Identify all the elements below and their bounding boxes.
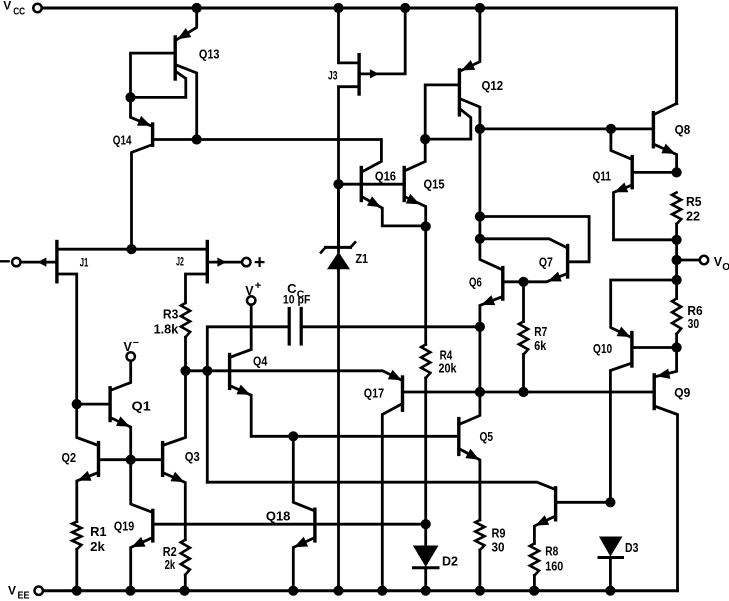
node VEE rail junction x=76.8 bbox=[72, 586, 82, 596]
svg-text:Q1: Q1 bbox=[132, 399, 151, 414]
node VEE rail junction x=425.7 bbox=[421, 586, 431, 596]
wire J2 source to tail node bbox=[132, 248, 208, 251]
svg-text:Q4: Q4 bbox=[253, 354, 268, 369]
wire Q13 diode-collector hook bbox=[131, 72, 186, 98]
svg-text:1.8k: 1.8k bbox=[154, 322, 179, 337]
wire J3 gate arrow bbox=[370, 69, 379, 78]
node VEE rail junction x=479.9 bbox=[475, 586, 485, 596]
transistor Q12 bbox=[458, 70, 461, 115]
wire Q19 emitter arrow bbox=[132, 537, 146, 547]
capacitor CC 10pF bbox=[288, 309, 291, 345]
svg-text:R3: R3 bbox=[163, 306, 178, 321]
wire Q15 emitter arrow bbox=[406, 194, 420, 204]
transistor Q15 bbox=[403, 168, 406, 201]
svg-text:R8: R8 bbox=[545, 544, 558, 559]
svg-text:EE: EE bbox=[18, 590, 30, 601]
wire Q11 emitter down and right bbox=[614, 185, 677, 240]
svg-text:Q7: Q7 bbox=[539, 255, 553, 270]
wire CC right lead bbox=[301, 325, 480, 328]
wire Q14 emitter from Q13 node bbox=[131, 97, 152, 126]
wire VCC top rail with corner down to Q8 collector bbox=[42, 8, 677, 104]
svg-text:J1: J1 bbox=[80, 256, 89, 270]
wire Q5 emitter arrow bbox=[465, 449, 479, 460]
wire Q12 base loop bbox=[425, 85, 459, 139]
wire Q13 second collector down bbox=[176, 65, 197, 140]
wire Q1 collector to V- bbox=[110, 361, 131, 391]
svg-text:2k: 2k bbox=[90, 539, 105, 554]
wire Q9 emitter from R6 node bbox=[656, 348, 677, 377]
svg-text:V: V bbox=[3, 0, 11, 13]
node top rail junction above Q12 bbox=[475, 3, 485, 13]
wire J1 drain down to Q1 base bbox=[57, 274, 77, 404]
wire Q4 emitter arrow bbox=[236, 385, 250, 395]
transistor Q6 bbox=[501, 268, 504, 300]
node VEE rail junction x=293.3 bbox=[288, 586, 298, 596]
node compensation line junction bbox=[475, 322, 485, 332]
wire J1 gate lead bbox=[21, 261, 57, 264]
node Q6 emitter to Q17 base line bbox=[475, 387, 485, 397]
terminal V- bbox=[127, 352, 135, 360]
wire Q2 emitter arrow bbox=[78, 471, 92, 481]
wire Q12 diode-collector hook bbox=[425, 109, 471, 140]
wire Q12 second collector down bbox=[459, 99, 480, 239]
transistor Q1 bbox=[108, 388, 111, 421]
resistor R8 160 bbox=[530, 544, 539, 576]
node VEE rail junction x=382.3 bbox=[377, 586, 387, 596]
terminal VCC bbox=[33, 4, 41, 12]
wire Q2 collector up bbox=[77, 404, 99, 445]
node R5 bottom / Q11 emitter bbox=[672, 235, 682, 245]
wire driver emitter to R8 bbox=[534, 516, 555, 544]
wire Q17 collector down to VEE bbox=[382, 404, 402, 591]
svg-text:Q17: Q17 bbox=[364, 386, 384, 401]
svg-text:O: O bbox=[722, 262, 729, 273]
wire Q19 collector up bbox=[131, 460, 153, 513]
transistor Q16 bbox=[360, 168, 363, 201]
svg-text:Q8: Q8 bbox=[675, 122, 691, 137]
wire R6 bottom lead bbox=[675, 334, 678, 348]
wire R7 bottom lead bbox=[522, 355, 525, 393]
svg-text:D2: D2 bbox=[442, 553, 458, 568]
wire Q12 emitter from VCC rail bbox=[461, 8, 480, 71]
resistor R9 30 bbox=[475, 520, 484, 550]
wire R4 top lead bbox=[424, 226, 427, 344]
wire Q2 emitter down bbox=[77, 473, 99, 522]
wire Q17 base line to Q9 bbox=[403, 391, 655, 394]
svg-text:J2: J2 bbox=[176, 255, 184, 269]
wire Q7 base loop bbox=[480, 217, 589, 262]
transistor J1 bbox=[55, 242, 58, 282]
transistor Q7 bbox=[566, 246, 569, 278]
wire J1 source to tail node bbox=[57, 248, 132, 251]
node Q13 base-collector tie bbox=[125, 92, 135, 102]
wire R8 bottom lead bbox=[533, 576, 536, 591]
wire Q1 emitter down bbox=[110, 418, 131, 460]
wire Z1 anode down to VEE rail bbox=[337, 269, 340, 590]
wire Q4 emitter down to Q5 base line bbox=[230, 386, 459, 437]
resistor R3 1.8k bbox=[181, 303, 190, 337]
node VEE rail junction x=130.5 bbox=[125, 586, 135, 596]
svg-text:R7: R7 bbox=[534, 324, 547, 339]
node Q15 Q16 emitters to R4 bbox=[421, 221, 431, 231]
wire Q3 collector up to R3 node bbox=[163, 371, 186, 446]
svg-text:Q3: Q3 bbox=[185, 449, 200, 464]
node Q8 emitter R5 top bbox=[672, 167, 682, 177]
svg-text:V: V bbox=[245, 284, 254, 298]
node Q8 base / Q11 collector bbox=[606, 124, 616, 134]
node CC branch at main line bbox=[202, 366, 212, 376]
wire Q5 collector up bbox=[459, 392, 480, 425]
label plus sign bbox=[256, 261, 264, 263]
wire J3 source down center column bbox=[339, 87, 360, 248]
wire Q13 emitter from VCC rail bbox=[177, 8, 197, 40]
node R6 bottom / Q10 base / Q9 emitter bbox=[672, 342, 682, 352]
wire Q16 emitter bbox=[361, 197, 425, 226]
node J3 source / Q15 Q16 base tap bbox=[333, 179, 343, 189]
wire J2 gate arrow bbox=[217, 258, 226, 267]
resistor R1 2k bbox=[72, 522, 81, 550]
transistor Q9 bbox=[653, 375, 656, 409]
diode D2 bbox=[424, 524, 427, 545]
wire Q3 emitter arrow bbox=[171, 472, 185, 482]
terminal VEE bbox=[35, 587, 43, 595]
node JFET tail junction bbox=[126, 244, 136, 254]
svg-text:Q15: Q15 bbox=[424, 177, 445, 192]
wire Q8 base line from Q12 bbox=[480, 127, 654, 130]
wire Q11 base bbox=[632, 171, 676, 174]
wire R9 bottom lead bbox=[478, 550, 481, 591]
transistor Q3 bbox=[161, 443, 164, 476]
svg-text:160: 160 bbox=[545, 559, 563, 574]
node R4 bottom / D2 anode / base line bbox=[421, 519, 431, 529]
node Q1 base junction bbox=[72, 399, 82, 409]
diode zener Z1 bbox=[337, 184, 340, 252]
wire long line to output driver bbox=[207, 482, 555, 489]
wire Q4 base line with Q17 emitter bbox=[186, 371, 402, 381]
terminal non-inverting input bbox=[242, 258, 250, 266]
wire Q10 base to R6 bottom bbox=[632, 346, 677, 349]
node R7 bottom junction bbox=[518, 387, 528, 397]
wire Q13 emitter arrow bbox=[177, 28, 191, 39]
wire driver base to D3 node bbox=[556, 501, 611, 504]
resistor R6 30 bbox=[672, 299, 681, 335]
wire CC branch down to driver line bbox=[206, 371, 209, 482]
wire Q3 emitter down to R2 bbox=[163, 473, 186, 540]
svg-text:Q12: Q12 bbox=[482, 78, 504, 93]
wire Q8 emitter to R5 bbox=[653, 144, 676, 172]
wire to Vo terminal bbox=[677, 259, 700, 262]
diode D3 bbox=[599, 537, 623, 557]
resistor R2 2k bbox=[181, 540, 190, 575]
svg-text:Q13: Q13 bbox=[199, 46, 220, 61]
node VEE rail junction x=534.2 bbox=[529, 586, 539, 596]
svg-text:V: V bbox=[8, 584, 16, 598]
resistor R4 20k bbox=[421, 345, 430, 379]
node D3 anode / driver base bbox=[605, 497, 615, 507]
wire Q6 emitter down bbox=[480, 297, 503, 393]
wire R4 bottom lead bbox=[424, 378, 427, 524]
wire Q15 Q16 common base bbox=[339, 183, 405, 186]
wire J1 gate arrow bbox=[37, 258, 46, 267]
svg-text:Z1: Z1 bbox=[356, 251, 369, 266]
wire Q15 emitter bbox=[404, 197, 426, 227]
svg-text:2k: 2k bbox=[165, 557, 176, 572]
svg-text:Q16: Q16 bbox=[375, 168, 396, 183]
wire Q7 collector bbox=[480, 239, 568, 248]
svg-text:10 pF: 10 pF bbox=[283, 292, 311, 306]
wire Q1 emitter arrow bbox=[116, 416, 130, 426]
wire Q16 emitter arrow bbox=[367, 196, 381, 207]
terminal inverting input bbox=[12, 258, 20, 266]
wire R5 bottom lead bbox=[675, 224, 678, 240]
svg-text:Q6: Q6 bbox=[469, 275, 482, 290]
svg-text:30: 30 bbox=[492, 540, 505, 555]
transistor Q18 bbox=[313, 509, 316, 541]
svg-text:+: + bbox=[255, 280, 261, 292]
wire Q9 collector down to VEE rail bbox=[654, 406, 677, 591]
wire CC left lead bbox=[207, 327, 289, 371]
wire Q14 base line to Q16 collector bbox=[153, 140, 382, 172]
svg-text:–: – bbox=[133, 336, 139, 348]
label minus sign bbox=[1, 260, 8, 262]
wire Q7 emitter arrow bbox=[548, 272, 562, 282]
node VEE rail junction x=338.5 bbox=[333, 586, 343, 596]
wire Q8 collector diagonal bbox=[653, 104, 676, 115]
wire Q11 collector up bbox=[611, 129, 632, 160]
transistor Q17 bbox=[401, 377, 404, 410]
wire driver emitter arrow bbox=[535, 515, 549, 525]
resistor R5 22 bbox=[672, 193, 681, 225]
svg-text:R1: R1 bbox=[90, 524, 107, 539]
terminal VO output bbox=[700, 256, 708, 264]
svg-text:Q18: Q18 bbox=[266, 509, 291, 524]
wire Q9 emitter arrow bbox=[657, 369, 671, 379]
node Q6 base / R7 top bbox=[518, 277, 528, 287]
wire Q7 emitter to Q6 base bbox=[503, 274, 568, 282]
wire Q5 emitter down to R9 bbox=[459, 449, 480, 521]
node R3 bottom junction bbox=[180, 366, 190, 376]
wire Q18 collector from Q5 base line bbox=[293, 436, 314, 510]
node Q12 base-collector tie bbox=[420, 134, 430, 144]
node VEE rail junction x=184.5 bbox=[179, 586, 189, 596]
wire Q18 emitter down bbox=[293, 538, 315, 591]
wire Q10 collector down to D3 bbox=[610, 363, 632, 502]
node top rail junction above J3 gate bbox=[400, 3, 410, 13]
wire R2 bottom lead bbox=[184, 575, 187, 591]
wire Q1 base bbox=[77, 403, 110, 406]
transistor output driver NPN bbox=[554, 488, 557, 520]
wire Q10 emitter arrow bbox=[617, 327, 631, 337]
wire VEE bottom rail bbox=[43, 589, 678, 592]
svg-text:22: 22 bbox=[686, 208, 700, 223]
node Q7 collector tie bbox=[475, 234, 485, 244]
wire Q17 emitter arrow bbox=[388, 370, 402, 381]
transistor J2 bbox=[206, 242, 209, 282]
svg-text:V: V bbox=[124, 340, 133, 354]
transistor Q5 bbox=[457, 419, 460, 455]
wire right column R5 to R6 bbox=[675, 240, 678, 299]
wire Q2 Q3 base line bbox=[99, 458, 163, 461]
wire Q6 emitter arrow bbox=[481, 295, 495, 305]
terminal V+ bbox=[247, 296, 255, 304]
node Q18 collector tap bbox=[288, 431, 298, 441]
wire J3 gate to VCC bbox=[359, 8, 405, 74]
svg-text:Q14: Q14 bbox=[113, 132, 132, 147]
node top rail junction above J3 drain bbox=[333, 3, 343, 13]
transistor Q4 bbox=[228, 355, 231, 389]
node VEE rail junction x=610.4 bbox=[605, 586, 615, 596]
svg-text:Q11: Q11 bbox=[593, 169, 611, 184]
node Q12 collector to Q8 base line bbox=[475, 124, 485, 134]
node top rail junction above Q13 bbox=[192, 3, 202, 13]
wire R7 top lead bbox=[522, 282, 525, 322]
wire Q4 collector to V+ bbox=[230, 305, 252, 358]
wire R3 bottom lead bbox=[184, 337, 187, 371]
svg-text:30: 30 bbox=[688, 316, 700, 331]
svg-text:Q10: Q10 bbox=[593, 341, 612, 356]
wire Q12 emitter arrow bbox=[461, 60, 475, 70]
node Q2 Q3 base junction bbox=[126, 455, 136, 465]
wire Q18 emitter arrow bbox=[294, 537, 308, 547]
transistor Q19 bbox=[151, 510, 154, 541]
svg-text:Q2: Q2 bbox=[62, 450, 77, 465]
svg-text:J3: J3 bbox=[328, 68, 338, 82]
svg-text:R5: R5 bbox=[686, 194, 702, 209]
resistor R7 6k bbox=[519, 322, 528, 355]
transistor Q14 bbox=[151, 124, 154, 145]
svg-text:6k: 6k bbox=[534, 338, 547, 353]
wire J3 drain to VCC bbox=[339, 8, 360, 63]
wire Q14 emitter arrow bbox=[137, 116, 151, 126]
wire Q10 emitter from output column bbox=[611, 280, 677, 337]
svg-text:R9: R9 bbox=[492, 526, 506, 541]
node Q10 emitter tap bbox=[672, 275, 682, 285]
transistor Q2 bbox=[97, 443, 100, 476]
node Q7 base loop tap bbox=[475, 211, 485, 221]
svg-text:CC: CC bbox=[13, 7, 25, 18]
svg-text:D3: D3 bbox=[625, 540, 638, 555]
wire J2 gate lead bbox=[207, 261, 242, 264]
svg-text:Q9: Q9 bbox=[674, 385, 690, 400]
node Q13 collector to Q14 base line bbox=[192, 134, 202, 144]
wire J2 drain to R3 bbox=[186, 274, 208, 303]
wire R1 bottom lead bbox=[75, 549, 78, 591]
node output tap bbox=[672, 255, 682, 265]
wire Q8 emitter arrow bbox=[661, 144, 675, 154]
wire Q19 emitter down bbox=[131, 538, 153, 591]
svg-text:20k: 20k bbox=[439, 361, 458, 376]
svg-text:Q5: Q5 bbox=[480, 429, 494, 444]
wire Q19 base line to D2 node bbox=[153, 523, 426, 526]
wire Q6 collector up bbox=[480, 239, 503, 270]
transistor Q8 bbox=[652, 113, 655, 147]
wire Q11 emitter arrow bbox=[614, 183, 628, 193]
transistor Q10 bbox=[630, 333, 633, 367]
transistor Q13 bbox=[173, 37, 176, 79]
transistor Q11 bbox=[631, 157, 634, 188]
wire Q15 collector up to Q12 node bbox=[404, 139, 425, 171]
wire Q13 base loop left bbox=[131, 53, 176, 97]
svg-text:Q19: Q19 bbox=[114, 519, 134, 534]
wire Q14 collector down to JFET tail bbox=[132, 145, 153, 250]
transistor J3 bbox=[357, 55, 360, 94]
